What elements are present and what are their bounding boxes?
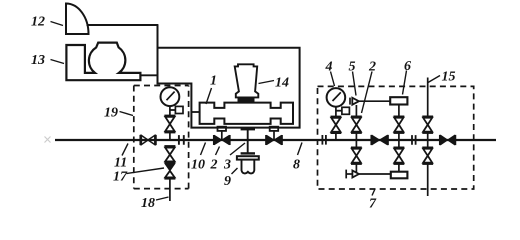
gauge 4 needle: [333, 92, 341, 101]
label 15: [442, 70, 456, 85]
label 3: [223, 158, 231, 173]
leader of label 12: [51, 22, 64, 26]
union joint (box 7 inlet): [322, 135, 326, 145]
valve 2 (left) stem: [221, 131, 223, 140]
drain branch middle flange: [164, 162, 175, 164]
valve 11 flanges: [140, 135, 155, 145]
valve (main line outlet) body: [441, 136, 454, 145]
valve (main line, between B and C) body: [372, 136, 387, 145]
branch C lower valve body: [394, 149, 403, 163]
branch C lower valve bottom flange: [394, 163, 405, 165]
union joint (left box): [179, 135, 184, 145]
wire: purge header bottom: [359, 173, 391, 175]
label 4: [325, 60, 333, 75]
label 7: [369, 197, 377, 212]
valve 2 (left) flanges: [214, 135, 230, 145]
leader of label 2 (middle): [216, 147, 220, 156]
leader of label 13: [51, 60, 65, 64]
svg-text:12: 12: [31, 15, 45, 30]
wire: flue / enclosure loop around regulator unit: [158, 25, 300, 128]
svg-text:18: 18: [141, 196, 155, 211]
label 9: [224, 174, 231, 189]
purge nozzle (bottom): [352, 171, 359, 178]
valve 2 (right) body: [267, 136, 281, 145]
appliance 13 (gas-fired unit): [66, 43, 140, 81]
branch C lower valve top flange: [394, 147, 405, 149]
leader of label 9: [232, 168, 238, 174]
label 6: [404, 59, 411, 74]
fan 12: [66, 4, 89, 35]
wire: purge line top: [359, 100, 390, 102]
branch D lower valve bottom flange: [422, 163, 433, 165]
leader of label 14: [259, 81, 275, 84]
valve (main line, between B and C) flanges: [371, 135, 388, 145]
dashed box 19 (inlet unit enclosure): [134, 86, 189, 189]
wire: main gas pipe line: [55, 139, 496, 141]
branch D upper valve top flange: [422, 116, 433, 118]
wire: branch C top stem: [398, 105, 400, 117]
gauge needle (left): [167, 92, 175, 101]
valve 2 (right) stem: [273, 131, 275, 140]
wire: branch D upper stem: [427, 133, 429, 140]
leader of label 19: [120, 112, 134, 116]
label 19: [104, 106, 118, 121]
label 10: [191, 158, 205, 173]
wire: purge header tick link: [346, 173, 352, 175]
svg-text:15: 15: [442, 70, 456, 85]
label 8: [293, 158, 300, 173]
valve 11 body: [141, 135, 154, 144]
actuator 14 base bar: [238, 97, 255, 102]
label 11: [114, 156, 127, 171]
label 2 (middle): [210, 158, 218, 173]
svg-text:1: 1: [210, 74, 217, 89]
leader of label 4: [331, 72, 335, 87]
valve 2 (right, under unit) foot block: [270, 127, 279, 131]
pot 9 lip: [237, 156, 259, 159]
impulse line 3 (T tube): [247, 128, 249, 154]
leader of label 1: [206, 88, 212, 104]
svg-text:11: 11: [114, 156, 127, 171]
gauge 4 cock square: [342, 107, 350, 114]
actuator 14 bell: [235, 64, 259, 97]
leader of label 3: [230, 143, 245, 155]
svg-text:6: 6: [404, 59, 411, 74]
wire: gauge branch to main line (left): [169, 132, 171, 140]
leader of label 6: [403, 71, 407, 95]
valve 2 (branch B upper) top flange: [351, 116, 362, 118]
wire: gauge 4 branch: [335, 133, 337, 140]
valve 2 (left, under unit) foot block: [218, 127, 227, 131]
leader of label 17: [127, 168, 165, 174]
purge outlet 5 end tick: [349, 98, 351, 105]
valve (main line outlet) flanges: [440, 135, 455, 145]
label 5: [349, 60, 356, 75]
branch B lower valve bottom flange: [351, 163, 362, 165]
valve 2 (left) body: [215, 136, 229, 145]
faint cross mark at pipe inlet: [45, 137, 51, 143]
svg-text:8: 8: [293, 158, 300, 173]
branch B lower valve top flange: [351, 147, 362, 149]
impulse line 3 bottom bar: [241, 152, 255, 154]
gauge 4 valve top flange: [331, 116, 342, 118]
label 14: [275, 76, 289, 91]
label 2 (right box): [368, 60, 376, 75]
wire: branch D drain through box: [427, 164, 429, 196]
wire: drain line 18: [169, 179, 171, 201]
wire: branch C lower stem: [398, 140, 400, 147]
branch D upper valve body: [423, 118, 432, 132]
label 18: [141, 196, 155, 211]
pot 9 body: [242, 160, 255, 174]
svg-text:14: 14: [275, 76, 289, 91]
gauge cock connector (left): [170, 109, 176, 111]
leader of label 2 (right box): [362, 72, 373, 114]
valve 17 bottom flange: [164, 178, 175, 180]
gauge 4 stem: [335, 107, 337, 117]
filter 6: [390, 97, 407, 104]
wire: branch B top stem: [355, 105, 357, 116]
leader of label 18: [156, 197, 169, 200]
branch C upper valve body: [394, 118, 403, 132]
unit 1 body (regulator/meter): [200, 103, 293, 124]
leader of label 8: [298, 143, 303, 156]
svg-text:7: 7: [369, 197, 377, 212]
branch B lower valve body: [352, 149, 361, 163]
wire: branch D lower stem: [427, 140, 429, 147]
valve 2 (branch B upper) body: [352, 118, 361, 132]
leader of label 7: [372, 189, 375, 196]
wire: branch C upper stem: [398, 133, 400, 140]
branch C upper valve top flange: [394, 116, 405, 118]
label 17: [113, 170, 128, 185]
valve 17 body (lower): [165, 171, 174, 178]
gauge stem (left): [169, 106, 171, 115]
label 1: [210, 74, 217, 89]
wire: fan outlet duct: [87, 24, 159, 26]
wire: branch B lower stem: [355, 140, 357, 147]
svg-text:2: 2: [210, 158, 218, 173]
branch C upper valve bottom flange: [394, 132, 405, 134]
svg-text:10: 10: [191, 158, 205, 173]
leader of label 10: [201, 143, 206, 156]
svg-text:19: 19: [104, 106, 118, 121]
wire: branch B drop to purge header: [355, 164, 357, 172]
wire: branch B upper stem: [355, 133, 357, 140]
svg-text:17: 17: [113, 170, 128, 185]
pressure gauge 4: [327, 88, 346, 107]
drain branch valve (upper) flange: [164, 145, 175, 147]
valve 2 (branch B upper) bottom flange: [351, 132, 362, 134]
leader of label 5: [353, 72, 357, 96]
purge header end tick (bottom): [345, 170, 347, 179]
drain branch valve (upper) body: [165, 148, 174, 162]
burner pot (bottom rectangle): [391, 172, 408, 179]
label 12: [31, 15, 45, 30]
valve 17 body (filled top): [165, 164, 174, 171]
impulse line 3 top bar: [241, 128, 255, 130]
gauge 4 cock connector: [336, 110, 342, 112]
wire: stub from loop to unit body: [191, 111, 199, 113]
gauge valve (left) body: [165, 117, 174, 131]
dashed box 7 (GRU enclosure): [318, 86, 474, 189]
svg-text:13: 13: [31, 53, 45, 68]
pressure gauge (left): [161, 87, 180, 106]
wire: line 15 riser: [427, 78, 429, 117]
gauge valve (left) flange bottom: [164, 131, 175, 133]
leader of label 15: [428, 76, 440, 83]
leader of label 11: [122, 144, 128, 156]
purge outlet 5 nozzle: [352, 98, 359, 105]
gauge 4 valve body: [331, 118, 340, 132]
gauge cock square (left): [175, 106, 183, 113]
branch D upper valve bottom flange: [422, 132, 433, 134]
svg-text:3: 3: [223, 158, 231, 173]
branch D lower valve body: [423, 149, 432, 163]
label 13: [31, 53, 45, 68]
union joint (box 7, right of C): [412, 135, 416, 145]
gauge valve (left) flange top: [164, 115, 175, 117]
gauge 4 valve bottom flange: [331, 132, 342, 134]
valve 2 (right) flanges: [266, 135, 282, 145]
svg-text:9: 9: [224, 174, 231, 189]
wire: appliance gas connection: [140, 74, 158, 76]
branch D lower valve top flange: [422, 147, 433, 149]
wire: branch C drop: [398, 164, 400, 172]
